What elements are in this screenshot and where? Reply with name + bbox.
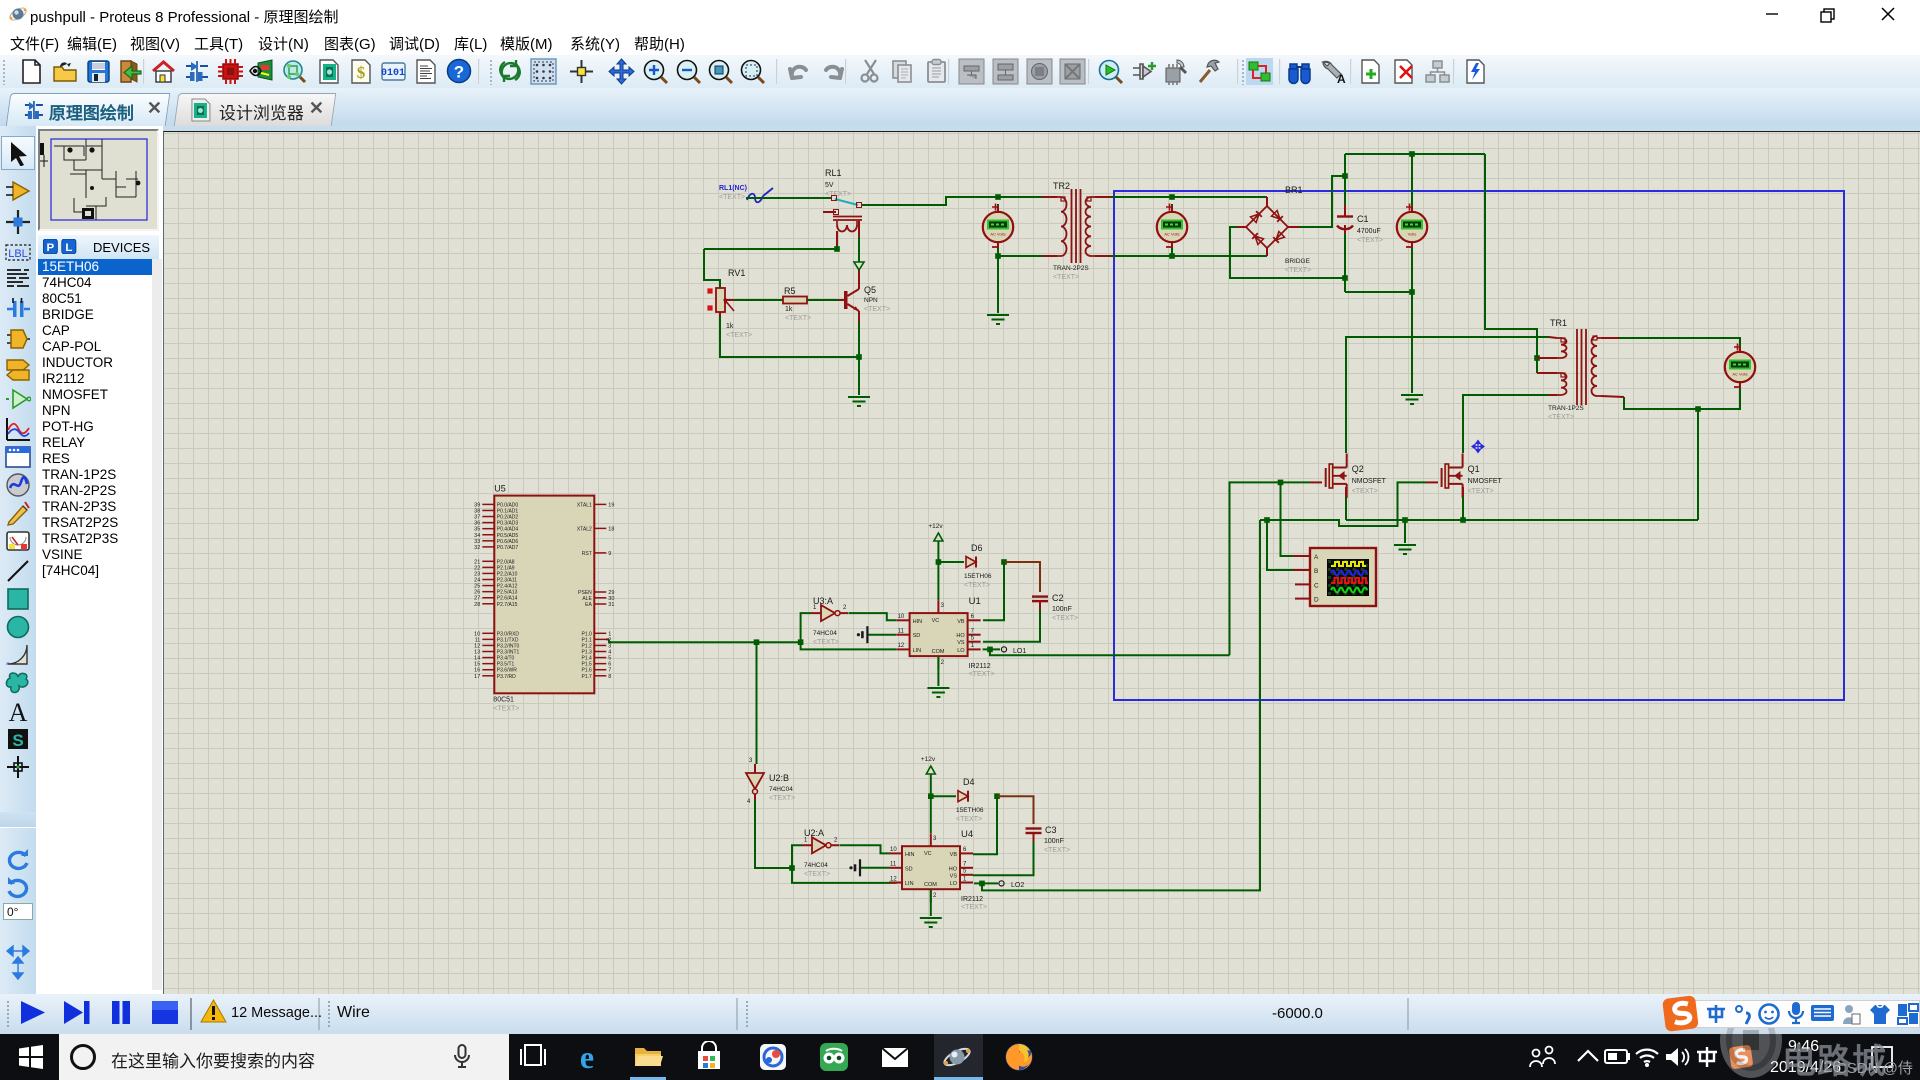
svg-text:11: 11 xyxy=(890,862,897,868)
svg-text:1k: 1k xyxy=(785,306,793,313)
svg-text:<TEXT>: <TEXT> xyxy=(785,315,811,322)
svg-text:74HC04: 74HC04 xyxy=(769,786,793,793)
svg-text:C1: C1 xyxy=(1357,214,1369,224)
svg-text:<TEXT>: <TEXT> xyxy=(719,194,745,201)
svg-text:TR1: TR1 xyxy=(1550,318,1567,328)
svg-text:COM: COM xyxy=(924,882,937,888)
svg-text:C2: C2 xyxy=(1052,593,1064,603)
svg-text:<TEXT>: <TEXT> xyxy=(1548,414,1574,421)
svg-text:BR1: BR1 xyxy=(1285,185,1303,195)
svg-text:HIN: HIN xyxy=(905,852,915,858)
svg-text:<TEXT>: <TEXT> xyxy=(769,795,795,802)
svg-text:VC: VC xyxy=(924,851,932,857)
svg-text:RL1(NC): RL1(NC) xyxy=(719,185,747,192)
svg-text:0101: 0101 xyxy=(381,68,405,79)
svg-text:Q5: Q5 xyxy=(864,285,876,295)
svg-text:<TEXT>: <TEXT> xyxy=(1053,274,1079,281)
svg-text:SD: SD xyxy=(905,866,913,872)
svg-text:15ETH06: 15ETH06 xyxy=(956,807,984,814)
svg-text:6: 6 xyxy=(963,847,967,853)
svg-text:TRAN-2P2S: TRAN-2P2S xyxy=(1053,265,1089,272)
svg-text:D4: D4 xyxy=(963,777,975,787)
svg-text:AC Volts: AC Volts xyxy=(990,232,1005,237)
svg-text:U5: U5 xyxy=(494,484,506,494)
svg-text:10: 10 xyxy=(898,614,905,620)
svg-text:P3.7/RD: P3.7/RD xyxy=(497,674,516,680)
svg-text:U2:A: U2:A xyxy=(804,828,824,838)
svg-text:+12v: +12v xyxy=(921,756,936,763)
svg-text:12: 12 xyxy=(890,876,897,882)
svg-text:1k: 1k xyxy=(726,323,734,330)
svg-text:1: 1 xyxy=(813,605,817,611)
svg-text:HO: HO xyxy=(956,633,965,639)
svg-text:U3:A: U3:A xyxy=(813,596,833,606)
svg-text:NMOSFET: NMOSFET xyxy=(1468,478,1503,485)
svg-text:U1: U1 xyxy=(969,596,981,607)
svg-text:7: 7 xyxy=(971,629,975,635)
svg-text:Q1: Q1 xyxy=(1468,464,1480,474)
svg-text:RL1: RL1 xyxy=(825,168,842,178)
svg-text:2: 2 xyxy=(834,837,838,843)
svg-text:15ETH06: 15ETH06 xyxy=(964,573,992,580)
svg-text:IR2112: IR2112 xyxy=(969,663,991,670)
svg-text:12: 12 xyxy=(898,643,905,649)
svg-text:P0.7/AD7: P0.7/AD7 xyxy=(497,545,519,551)
svg-text:LO2: LO2 xyxy=(1011,882,1024,889)
svg-text:NPN: NPN xyxy=(864,297,878,304)
svg-text:R5: R5 xyxy=(784,286,796,296)
svg-text:<TEXT>: <TEXT> xyxy=(825,191,851,198)
svg-text:+12v: +12v xyxy=(928,523,943,530)
svg-text:1: 1 xyxy=(963,876,967,882)
svg-text:ALE: ALE xyxy=(582,596,592,602)
svg-text:P1.7: P1.7 xyxy=(582,674,593,680)
svg-text:3: 3 xyxy=(941,603,945,609)
svg-text:1: 1 xyxy=(971,643,975,649)
svg-text:74HC04: 74HC04 xyxy=(804,862,828,869)
svg-text:BRIDGE: BRIDGE xyxy=(1285,258,1311,265)
svg-text:18: 18 xyxy=(608,526,614,532)
svg-text:<TEXT>: <TEXT> xyxy=(864,306,890,313)
svg-text:<TEXT>: <TEXT> xyxy=(726,332,752,339)
svg-text:VC: VC xyxy=(932,618,940,624)
svg-text:LO1: LO1 xyxy=(1013,648,1026,655)
svg-text:RV1: RV1 xyxy=(728,268,745,278)
svg-text:?: ? xyxy=(454,63,464,82)
svg-text:8: 8 xyxy=(608,674,611,680)
svg-text:D: D xyxy=(1314,597,1319,604)
svg-text:VB: VB xyxy=(950,852,958,858)
svg-text:LIN: LIN xyxy=(913,648,922,654)
svg-text:RST: RST xyxy=(582,551,592,557)
svg-text:L: L xyxy=(65,242,72,254)
svg-text:<TEXT>: <TEXT> xyxy=(804,871,830,878)
svg-text:LBL: LBL xyxy=(8,248,28,260)
svg-text:4700uF: 4700uF xyxy=(1357,228,1381,235)
svg-text:XTAL2: XTAL2 xyxy=(577,526,592,532)
svg-text:U4: U4 xyxy=(961,829,973,840)
svg-text:<TEXT>: <TEXT> xyxy=(1052,615,1078,622)
svg-text:<TEXT>: <TEXT> xyxy=(969,671,995,678)
svg-text:U2:B: U2:B xyxy=(769,773,789,783)
svg-text:P: P xyxy=(46,242,54,254)
svg-text:<TEXT>: <TEXT> xyxy=(956,816,982,823)
svg-text:<TEXT>: <TEXT> xyxy=(1285,267,1311,274)
svg-text:<TEXT>: <TEXT> xyxy=(961,904,987,911)
svg-text:XTAL1: XTAL1 xyxy=(577,502,592,508)
svg-text:<TEXT>: <TEXT> xyxy=(1352,488,1378,495)
svg-text:LIN: LIN xyxy=(905,881,914,887)
svg-text:<TEXT>: <TEXT> xyxy=(1044,847,1070,854)
svg-text:5V: 5V xyxy=(825,182,834,189)
svg-text:31: 31 xyxy=(608,602,614,608)
svg-text:11: 11 xyxy=(898,629,905,635)
svg-text:P2.7/A15: P2.7/A15 xyxy=(497,602,518,608)
svg-text:3: 3 xyxy=(933,836,937,842)
svg-text:C3: C3 xyxy=(1045,825,1057,835)
svg-text:IR2112: IR2112 xyxy=(961,896,983,903)
svg-text:6: 6 xyxy=(971,614,975,620)
svg-text:32: 32 xyxy=(474,545,480,551)
svg-text:2: 2 xyxy=(941,660,945,666)
svg-text:Q2: Q2 xyxy=(1352,464,1364,474)
svg-text:TR2: TR2 xyxy=(1053,181,1070,191)
svg-text:10: 10 xyxy=(890,847,897,853)
svg-text:HO: HO xyxy=(949,866,958,872)
svg-text:100nF: 100nF xyxy=(1052,606,1072,613)
svg-text:TRAN-1P2S: TRAN-1P2S xyxy=(1548,405,1584,412)
svg-text:9: 9 xyxy=(608,551,611,557)
svg-text:A: A xyxy=(1314,554,1319,561)
svg-text:S: S xyxy=(12,731,23,750)
svg-text:Volts: Volts xyxy=(1408,232,1417,237)
svg-text:19: 19 xyxy=(608,502,614,508)
svg-text:5: 5 xyxy=(963,869,967,875)
svg-text:$: $ xyxy=(357,63,366,82)
svg-text:5: 5 xyxy=(971,636,975,642)
svg-text:100nF: 100nF xyxy=(1044,838,1064,845)
svg-text:SD: SD xyxy=(913,633,921,639)
svg-text:4: 4 xyxy=(747,799,751,805)
svg-text:LO: LO xyxy=(950,881,958,887)
svg-text:74HC04: 74HC04 xyxy=(813,630,837,637)
svg-text:VS: VS xyxy=(950,873,958,879)
svg-text:28: 28 xyxy=(474,602,480,608)
svg-text:17: 17 xyxy=(474,674,480,680)
svg-text:<TEXT>: <TEXT> xyxy=(493,706,519,713)
svg-text:LO: LO xyxy=(957,648,965,654)
svg-text:<TEXT>: <TEXT> xyxy=(964,582,990,589)
svg-text:COM: COM xyxy=(932,649,945,655)
svg-text:<TEXT>: <TEXT> xyxy=(813,639,839,646)
svg-text:AC Volts: AC Volts xyxy=(1164,232,1179,237)
svg-text:AC Volts: AC Volts xyxy=(1732,372,1747,377)
svg-text:D6: D6 xyxy=(971,543,983,553)
svg-text:B: B xyxy=(1314,568,1318,575)
svg-text:VS: VS xyxy=(957,640,965,646)
svg-text:C: C xyxy=(1314,582,1319,589)
svg-text:2: 2 xyxy=(933,893,937,899)
svg-text:30: 30 xyxy=(608,596,614,602)
svg-text:NMOSFET: NMOSFET xyxy=(1352,478,1387,485)
svg-text:<TEXT>: <TEXT> xyxy=(1357,237,1383,244)
svg-text:80C51: 80C51 xyxy=(493,697,514,704)
svg-text:A: A xyxy=(9,698,28,724)
svg-text:7: 7 xyxy=(963,862,967,868)
svg-text:<TEXT>: <TEXT> xyxy=(1468,488,1494,495)
svg-text:HIN: HIN xyxy=(913,619,923,625)
svg-text:EA: EA xyxy=(585,602,592,608)
svg-text:VB: VB xyxy=(957,619,965,625)
svg-text:A: A xyxy=(1337,72,1346,85)
svg-text:2: 2 xyxy=(843,605,847,611)
svg-text:e: e xyxy=(580,1041,594,1073)
svg-text:3: 3 xyxy=(749,758,753,764)
svg-text:1: 1 xyxy=(804,837,808,843)
